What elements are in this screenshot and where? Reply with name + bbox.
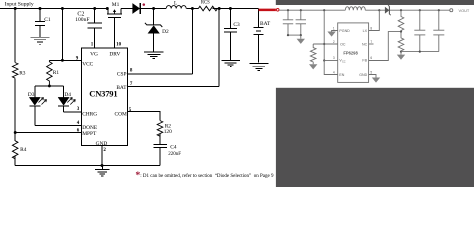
wire VCC branch vertical [61,9,63,61]
ground arrow Roc [309,64,317,69]
resistor Roc [310,44,316,64]
resistor RCS [198,6,217,11]
svg-text:120: 120 [164,129,172,135]
diode D5 [385,7,390,14]
wire BAT vertical [218,9,220,87]
node LED anode junction [48,84,51,87]
resistor R4 [12,141,18,159]
pin numbers FP6298 [333,26,373,74]
svg-text:VOUT: VOUT [459,8,470,13]
gray top band [276,0,474,5]
node cout1 bottom [419,51,421,53]
svg-text:2: 2 [333,40,335,44]
wire VCC pin 9 [49,59,81,61]
svg-text:220nF: 220nF [168,152,181,157]
wire LX pin 8 [369,10,380,30]
node Vcc junction [323,59,325,61]
wire OC line [313,43,338,45]
resistor Rfb1 [398,10,404,31]
svg-text:CHRG: CHRG [82,112,97,118]
svg-text:4: 4 [333,70,335,74]
svg-text:FP6298: FP6298 [343,51,358,56]
wire red BAT link [259,9,276,12]
node right rail dots [287,9,440,11]
svg-text:EN: EN [339,73,344,77]
resistor R3 [12,63,18,79]
node cap join [300,34,302,36]
svg-text:L: L [174,0,177,6]
svg-text:2: 2 [103,148,106,153]
capacitor Cin1 [283,10,293,35]
battery BAT [253,9,270,63]
svg-text:6: 6 [370,56,372,60]
wire R3 branch top [14,9,16,63]
wire top rail [0,8,166,10]
wire right rail [279,9,345,11]
svg-text:: D1 can be omitted, refer to: : D1 can be omitted, refer to section “D… [140,173,274,179]
wire CHRG [64,111,82,113]
svg-text:OC: OC [340,43,346,47]
wire NC stub [369,43,374,45]
capacitor Cout2 [433,10,444,51]
svg-text:1: 1 [91,43,94,48]
ground main [95,166,110,176]
op-amp U2 FP6298 box [338,23,369,83]
resistor Rfb2 [398,32,404,52]
node VCC junction [61,59,64,62]
svg-text:CN3791: CN3791 [89,89,117,99]
ground under D2 [144,52,164,59]
svg-text:DRV: DRV [109,52,120,58]
zener diode D2 [145,9,169,52]
svg-text:COM: COM [115,112,127,118]
inductor L [166,6,186,9]
LED D3 [28,86,47,125]
svg-text:10: 10 [116,43,122,48]
svg-text:R4: R4 [20,147,27,153]
svg-text:NC: NC [362,43,368,47]
svg-text:CC: CC [342,60,346,63]
svg-text:3: 3 [77,107,80,112]
ground arrow GND5 [372,78,380,83]
svg-text:BAT: BAT [116,85,127,91]
wire MPPT [15,132,81,134]
wire VCC feed vertical [323,10,325,60]
svg-text:GND: GND [359,73,367,77]
svg-text:8: 8 [130,68,133,73]
wire output bottom rail [401,51,439,53]
wire FB route [369,32,401,61]
svg-text:R3: R3 [19,70,26,76]
svg-text:7: 7 [370,40,372,44]
wire EN tie [324,61,338,75]
op-amp U1 CN3791 box [81,48,127,145]
ground arrow PGND [327,32,335,37]
node OC junction [323,43,325,45]
capacitor C1 [35,9,45,38]
svg-text:VCC: VCC [82,62,93,68]
resistor R1 [47,60,53,86]
wire CSP pin 8 [127,73,192,75]
node GND junction [101,164,104,167]
svg-text:BAT: BAT [260,21,271,27]
capacitor C3 [224,9,237,61]
gray bottom-right block [276,88,474,187]
svg-text:C4: C4 [170,145,177,151]
capacitor Cout1 [414,10,425,51]
capacitor C2 [88,9,103,49]
wire LED anode rail [35,85,64,87]
wire COM [127,112,160,121]
wire to R4 [14,133,16,141]
LED D4 [58,86,75,112]
svg-text:M1: M1 [112,2,120,8]
wire BAT pin 7 [127,85,219,87]
svg-text:C1: C1 [44,17,51,23]
wire R3 to MPPT node [14,78,16,132]
capacitor Cin2 [288,10,306,35]
wire top rail right of inductor [187,8,259,10]
svg-text:VG: VG [90,52,98,58]
wire diode to vout [389,9,449,11]
node divider bottom [400,51,402,53]
svg-text:MPPT: MPPT [82,131,97,137]
ground arrow input caps [300,35,302,39]
svg-text:D4: D4 [64,92,71,98]
svg-text:100nF: 100nF [75,17,89,23]
transistor M1 [107,2,122,48]
wire Vcc pin [324,60,338,62]
svg-text:FB: FB [362,59,367,63]
svg-text:C3: C3 [233,22,240,28]
svg-text:D2: D2 [162,29,169,35]
svg-text:R1: R1 [53,70,60,76]
ground arrow divider [400,52,402,55]
wire GND pin 5 [369,75,376,78]
ground under battery [250,63,269,70]
wire R2 to C4 [159,134,161,145]
svg-text:CSP: CSP [117,71,127,77]
svg-text:Input Supply: Input Supply [5,1,34,7]
svg-text:LX: LX [363,29,368,33]
node red open terminal [276,9,279,12]
wire bottom rail [15,165,160,167]
node VOUT terminal [450,9,453,12]
wire rail to diode [365,9,385,11]
node MPPT junction [14,131,17,134]
node FB divider [400,31,402,33]
svg-text:8: 8 [370,26,372,30]
wire GND pin 2 [101,145,103,165]
node junction dots on top rail [14,7,232,10]
red asterisk dot for D1 [143,3,146,6]
ground under C1 [31,37,50,44]
inductor L2 [345,7,365,10]
svg-text:PGND: PGND [339,29,350,33]
svg-text:D3: D3 [28,92,35,98]
resistor R2 [157,121,163,137]
svg-text:3: 3 [333,56,335,60]
svg-text:GND: GND [96,141,108,147]
capacitor C4 [154,144,167,165]
diode D1 [132,3,140,14]
svg-text:5: 5 [370,70,372,74]
wire CSP vertical [191,9,193,75]
svg-text:1: 1 [333,26,335,30]
ground under C3 [221,60,239,66]
wire DONE [35,124,82,126]
wire R4 to bottom rail [14,155,16,165]
svg-text:RCS: RCS [201,1,210,6]
wire PGND pin 1 [332,31,338,32]
